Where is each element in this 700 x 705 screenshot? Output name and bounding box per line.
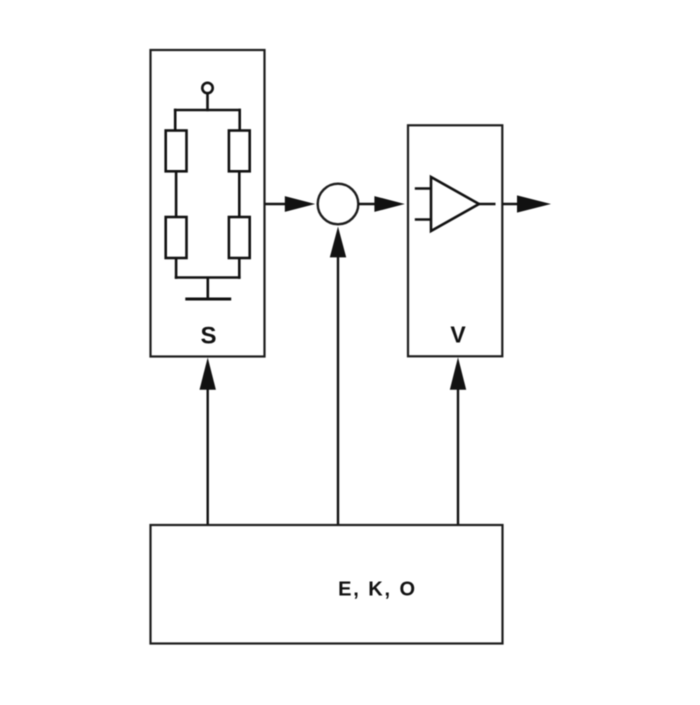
amplifier block V	[408, 125, 502, 356]
wire bridge top rail	[174, 109, 241, 112]
wire summing junction to amplifier block	[358, 203, 382, 205]
op-amp U1 triangle	[431, 177, 479, 231]
wire amplifier block to output	[503, 203, 528, 205]
wire E,K,O to amplifier block	[457, 386, 459, 524]
op-amp input lead (-)	[415, 218, 432, 221]
sensor block S	[151, 50, 265, 357]
wire left branch upper stub	[174, 109, 177, 132]
arrowhead into amplifier block bottom	[450, 357, 466, 390]
summing junction node	[318, 184, 359, 225]
wire ground stem	[207, 278, 210, 300]
wire E,K,O to sensor block	[206, 386, 208, 524]
output arrowhead	[517, 195, 551, 212]
op-amp output lead	[479, 203, 496, 205]
resistor R1 (upper left bridge arm)	[166, 131, 187, 172]
wire E,K,O to summing junction	[337, 254, 339, 524]
wire left branch lower stub	[175, 258, 178, 279]
svg-text:V: V	[450, 322, 466, 348]
influence block E,K,O	[151, 525, 503, 644]
op-amp input lead (+)	[415, 187, 432, 190]
wire left branch middle	[175, 171, 178, 217]
ground	[185, 298, 231, 301]
arrowhead into amplifier block	[374, 196, 404, 212]
svg-text:S: S	[200, 323, 216, 350]
wire right branch middle	[238, 171, 241, 217]
resistor R4 (lower right bridge arm)	[229, 217, 250, 258]
resistor R2 (upper right bridge arm)	[229, 131, 250, 172]
arrowhead into summing junction	[285, 196, 315, 212]
resistor R3 (lower left bridge arm)	[166, 217, 187, 258]
wire bridge bottom rail	[175, 276, 241, 279]
wire S output to summing junction	[265, 203, 292, 205]
arrowhead into summing junction bottom	[330, 227, 346, 258]
svg-text:E, K, O: E, K, O	[338, 579, 417, 601]
wire right branch lower stub	[238, 258, 241, 279]
arrowhead into sensor block	[200, 358, 216, 390]
wire terminal to top rail	[206, 93, 209, 111]
wire right branch upper stub	[238, 109, 241, 132]
terminal node (bridge supply)	[202, 83, 212, 93]
